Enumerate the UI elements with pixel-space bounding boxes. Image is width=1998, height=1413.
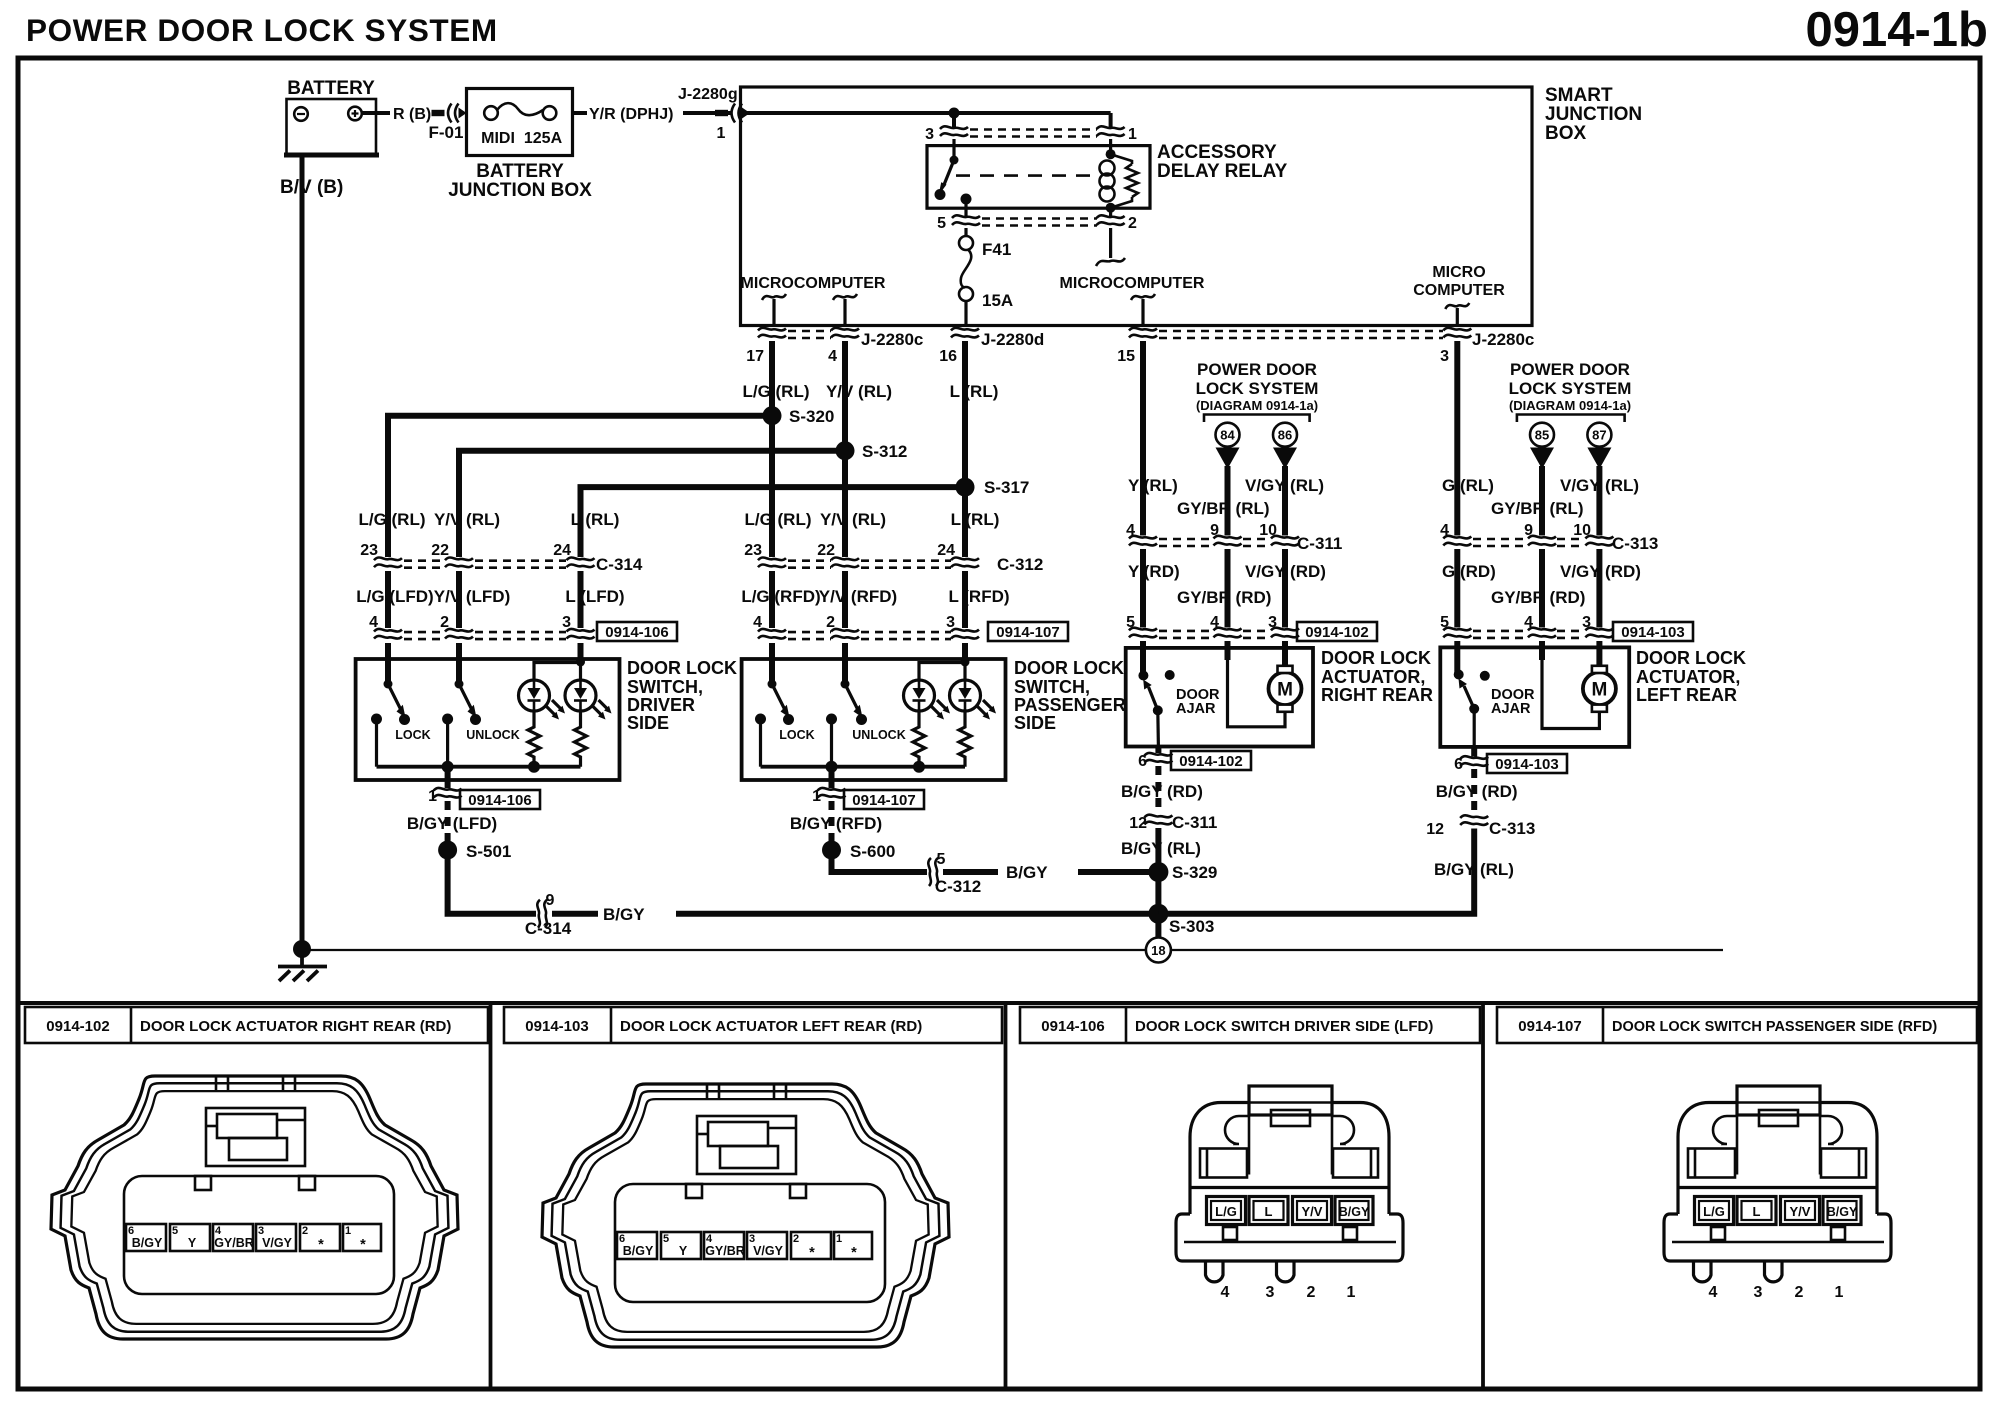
connector J-2280c pins 15 and 3 [1117, 328, 1534, 365]
svg-text:Y/V (RL): Y/V (RL) [826, 382, 892, 401]
svg-text:4: 4 [753, 614, 762, 631]
svg-text:S-312: S-312 [862, 442, 907, 461]
arrow 84 [1216, 448, 1240, 470]
panel divider 3 [1481, 1003, 1485, 1389]
driver LOCK switch [371, 680, 431, 767]
svg-text:B/V (B): B/V (B) [280, 177, 343, 198]
svg-text:9: 9 [1524, 522, 1533, 539]
relay internal dashed link [956, 174, 1093, 177]
svg-text:5: 5 [937, 215, 946, 232]
wire to SJB [683, 111, 732, 115]
svg-text:15: 15 [1117, 348, 1135, 365]
connector drawing 0914-103 [542, 1084, 949, 1347]
svg-text:0914-103: 0914-103 [1621, 624, 1684, 641]
passenger output wire pin 1 [829, 767, 835, 788]
right rear door ajar output [1156, 710, 1160, 746]
wire pin 15 down to right rear group [1140, 341, 1146, 536]
svg-text:5: 5 [1126, 614, 1135, 631]
wire left rear down to bus [1158, 829, 1474, 914]
svg-text:22: 22 [431, 542, 449, 559]
svg-text:M: M [1591, 680, 1607, 701]
smart junction box [741, 85, 1643, 326]
connector C-311 pin 12 [1144, 815, 1172, 825]
svg-text:COMPUTER: COMPUTER [1413, 282, 1505, 299]
svg-text:GY/BR (RL): GY/BR (RL) [1177, 499, 1270, 518]
panel header 0914-102 [25, 1007, 488, 1043]
hook pin 15 [1131, 294, 1155, 300]
door lock actuator right rear box [1126, 648, 1313, 747]
svg-text:GY/BR (RD): GY/BR (RD) [1491, 588, 1585, 607]
panel header 0914-107 [1497, 1007, 1977, 1043]
svg-text:L (RL): L (RL) [950, 382, 999, 401]
svg-text:Y/R (DPHJ): Y/R (DPHJ) [589, 106, 673, 123]
svg-text:2: 2 [440, 614, 449, 631]
svg-text:6: 6 [1138, 753, 1147, 770]
svg-text:(DIAGRAM 0914-1a): (DIAGRAM 0914-1a) [1196, 398, 1318, 413]
wire corner down to relay pin 1 [1109, 113, 1113, 127]
wire L (RL) pin16 to S-317 [962, 341, 968, 487]
svg-text:G (RD): G (RD) [1442, 562, 1496, 581]
svg-text:B/GY (RD): B/GY (RD) [1121, 782, 1203, 801]
dashed wire to S-501 [445, 801, 451, 843]
wire GY/BR (RL) from 84 [1225, 466, 1231, 536]
svg-text:9: 9 [1210, 522, 1219, 539]
svg-text:Y (RD): Y (RD) [1128, 562, 1180, 581]
relay connector row pins 3 and 1 [925, 126, 1137, 143]
svg-text:2: 2 [826, 614, 835, 631]
wire fuse to J-2280g [573, 111, 588, 115]
panel divider 1 [489, 1003, 493, 1389]
wire V/GY (RL) from 87 [1596, 466, 1602, 536]
connector 0914-103 row [1440, 614, 1693, 641]
driver resistor 2 [575, 713, 587, 767]
svg-text:6: 6 [1454, 756, 1463, 773]
svg-text:L/G (RL): L/G (RL) [742, 382, 809, 401]
svg-text:RIGHT REAR: RIGHT REAR [1321, 685, 1433, 705]
svg-text:3: 3 [1268, 614, 1277, 631]
svg-text:DOOR LOCK: DOOR LOCK [1636, 648, 1746, 668]
battery junction box [448, 89, 592, 202]
svg-text:85: 85 [1535, 428, 1549, 443]
node S-303 [1148, 904, 1168, 924]
svg-text:DOOR LOCK ACTUATOR RIGHT REAR: DOOR LOCK ACTUATOR RIGHT REAR (RD) [140, 1018, 451, 1035]
svg-text:87: 87 [1592, 428, 1606, 443]
svg-text:JUNCTION BOX: JUNCTION BOX [448, 180, 592, 201]
wire hook to SJB edge pin 3 [1456, 308, 1459, 326]
svg-text:12: 12 [1129, 815, 1147, 832]
svg-text:0914-106: 0914-106 [1041, 1018, 1104, 1035]
svg-text:BATTERY: BATTERY [287, 78, 375, 99]
svg-text:0914-103: 0914-103 [1495, 756, 1558, 773]
svg-text:1: 1 [812, 788, 821, 805]
svg-text:4: 4 [1126, 522, 1135, 539]
wires into driver switch box [385, 643, 391, 684]
svg-text:DOOR LOCK: DOOR LOCK [627, 658, 737, 678]
svg-text:UNLOCK: UNLOCK [852, 728, 905, 742]
svg-text:DOOR LOCK ACTUATOR LEFT REAR (: DOOR LOCK ACTUATOR LEFT REAR (RD) [620, 1018, 922, 1035]
svg-text:9: 9 [546, 892, 555, 909]
arrow 85 [1530, 448, 1554, 470]
svg-text:GY/BR (RL): GY/BR (RL) [1491, 499, 1584, 518]
svg-text:18: 18 [1151, 943, 1165, 958]
node 84 circled [1216, 423, 1240, 447]
svg-text:4: 4 [369, 614, 378, 631]
driver resistor 1 [528, 713, 540, 767]
svg-text:16: 16 [939, 348, 957, 365]
svg-text:Y/V (RL): Y/V (RL) [434, 510, 500, 529]
svg-text:23: 23 [744, 542, 762, 559]
svg-text:125A: 125A [524, 130, 563, 147]
arrow 86 [1273, 448, 1297, 470]
svg-text:M: M [1277, 680, 1293, 701]
svg-text:S-600: S-600 [850, 842, 895, 861]
left rear door ajar output [1473, 709, 1476, 747]
connector C-314 row [360, 542, 643, 574]
svg-text:(DIAGRAM 0914-1a): (DIAGRAM 0914-1a) [1509, 398, 1631, 413]
svg-text:R (B): R (B) [393, 106, 431, 123]
wire Y/V passenger continues [842, 451, 848, 557]
wire S-317 branch to driver side [581, 487, 966, 557]
svg-text:84: 84 [1220, 428, 1235, 443]
svg-text:0914-102: 0914-102 [46, 1018, 109, 1035]
svg-text:POWER DOOR: POWER DOOR [1510, 360, 1630, 379]
svg-text:L (LFD): L (LFD) [565, 587, 624, 606]
svg-text:0914-103: 0914-103 [525, 1018, 588, 1035]
svg-text:0914-102: 0914-102 [1179, 753, 1242, 770]
svg-text:S-303: S-303 [1169, 917, 1214, 936]
dashed wire to S-600 [829, 801, 835, 843]
connector J-2280d pin 16 [939, 328, 1044, 365]
svg-text:1: 1 [717, 125, 726, 142]
wires into left rear actuator [1454, 641, 1460, 675]
svg-text:0914-102: 0914-102 [1305, 624, 1368, 641]
passenger LED 1 [904, 680, 951, 720]
node battery ground [293, 940, 311, 958]
wire S-329 to S-303 [1155, 872, 1161, 914]
svg-text:SWITCH,: SWITCH, [1014, 677, 1090, 697]
svg-text:3: 3 [562, 614, 571, 631]
panel header 0914-106 [1020, 1007, 1480, 1043]
svg-text:G (RL): G (RL) [1442, 476, 1494, 495]
svg-text:10: 10 [1259, 522, 1277, 539]
svg-text:10: 10 [1573, 522, 1591, 539]
svg-text:DOOR LOCK: DOOR LOCK [1014, 658, 1124, 678]
svg-text:3: 3 [925, 126, 934, 143]
svg-text:1: 1 [1128, 126, 1137, 143]
connector 0914-102 row [1126, 614, 1377, 641]
wire S-501 run to S-303 [448, 850, 536, 914]
wire S-312 branch to driver side [459, 451, 845, 557]
driver LED 1 [519, 680, 566, 720]
svg-text:BOX: BOX [1545, 123, 1587, 144]
svg-text:86: 86 [1278, 428, 1292, 443]
svg-text:ACTUATOR,: ACTUATOR, [1321, 667, 1425, 687]
svg-text:C-314: C-314 [525, 919, 572, 938]
node S-317 [956, 478, 975, 497]
wire L passenger continues [962, 487, 968, 557]
connector J-2280g symbol [715, 104, 750, 123]
svg-text:4: 4 [1440, 522, 1449, 539]
pin 6 connector left rear [1471, 747, 1477, 757]
microcomputer terminal symbol [1096, 258, 1125, 266]
hook pin 17 [762, 294, 786, 300]
wire pin 3 down to left rear group [1454, 341, 1460, 536]
svg-text:C-311: C-311 [1172, 813, 1217, 832]
svg-text:DOOR LOCK SWITCH PASSENGER SID: DOOR LOCK SWITCH PASSENGER SIDE (RFD) [1612, 1019, 1937, 1035]
svg-text:ACTUATOR,: ACTUATOR, [1636, 667, 1740, 687]
svg-text:S-320: S-320 [789, 407, 834, 426]
wire GY/BR (RL) from 85 [1539, 466, 1545, 536]
wire junction down to relay pin 3 [952, 113, 956, 127]
driver common bus [377, 765, 581, 769]
wire B/V (B) battery to ground [300, 155, 305, 948]
svg-text:C-312: C-312 [997, 555, 1043, 574]
battery [284, 78, 379, 155]
svg-text:B/GY (RFD): B/GY (RFD) [790, 814, 882, 833]
door lock actuator left rear box [1440, 647, 1629, 747]
svg-text:3: 3 [946, 614, 955, 631]
svg-text:12: 12 [1426, 821, 1444, 838]
pin 6 connector right rear [1155, 747, 1161, 754]
node S-329 [1148, 862, 1168, 882]
svg-text:B/GY (LFD): B/GY (LFD) [407, 814, 497, 833]
svg-text:MICRO: MICRO [1432, 264, 1485, 281]
connector 0914-106 row [369, 614, 677, 641]
svg-text:B/GY: B/GY [603, 905, 645, 924]
panel header 0914-103 [504, 1007, 1002, 1043]
relay connector row pins 5 and 2 [937, 215, 1137, 232]
svg-text:Y/V (LFD): Y/V (LFD) [434, 587, 511, 606]
svg-text:24: 24 [553, 542, 571, 559]
connector drawing 0914-106 [1176, 1086, 1403, 1301]
svg-text:B/GY: B/GY [1006, 863, 1048, 882]
svg-text:POWER DOOR LOCK SYSTEM: POWER DOOR LOCK SYSTEM [26, 12, 498, 48]
svg-text:L (RFD): L (RFD) [948, 587, 1009, 606]
svg-text:J-2280c: J-2280c [1472, 330, 1534, 349]
svg-text:LEFT REAR: LEFT REAR [1636, 685, 1737, 705]
wire S-303 to ground bus circle [1155, 914, 1161, 940]
passenger resistor 1 [913, 713, 925, 767]
wires passenger group mid segments [769, 571, 775, 628]
panel divider 2 [1004, 1003, 1008, 1389]
svg-text:4: 4 [1524, 614, 1533, 631]
svg-text:BATTERY: BATTERY [476, 161, 564, 182]
svg-text:3: 3 [1582, 614, 1591, 631]
svg-text:L (RL): L (RL) [571, 510, 620, 529]
svg-text:1: 1 [428, 788, 437, 805]
svg-text:0914-106: 0914-106 [605, 624, 668, 641]
wire SJB feed to relay [745, 111, 1111, 115]
svg-text:L/G (RL): L/G (RL) [358, 510, 425, 529]
svg-text:LOCK SYSTEM: LOCK SYSTEM [1509, 379, 1632, 398]
passenger common bus [761, 765, 966, 769]
left rear motor M [1583, 666, 1616, 712]
svg-text:3: 3 [1440, 348, 1449, 365]
svg-text:MICROCOMPUTER: MICROCOMPUTER [1060, 275, 1205, 292]
svg-text:23: 23 [360, 542, 378, 559]
connector C-311 row [1126, 522, 1342, 553]
ground bus line [302, 949, 1723, 951]
svg-text:S-329: S-329 [1172, 863, 1217, 882]
driver illumination branch node [576, 658, 585, 667]
connector F-01 symbol [432, 104, 467, 123]
hook pin 3 [1445, 303, 1469, 309]
svg-text:Y (RL): Y (RL) [1128, 476, 1178, 495]
node 87 circled [1587, 423, 1611, 447]
wires right rear mid segments [1140, 549, 1146, 628]
svg-text:ACCESSORY: ACCESSORY [1157, 142, 1277, 163]
node S-312 [836, 441, 855, 460]
svg-text:DRIVER: DRIVER [627, 695, 695, 715]
left rear door ajar switch [1454, 670, 1535, 718]
svg-text:22: 22 [817, 542, 835, 559]
svg-text:L/G (LFD): L/G (LFD) [356, 587, 433, 606]
wire hook to SJB edge pin 17 [772, 299, 775, 326]
wire S-600 run to S-329 [832, 850, 928, 872]
svg-text:V/GY (RL): V/GY (RL) [1560, 476, 1639, 495]
node S-600 [822, 841, 841, 860]
svg-text:0914-1b: 0914-1b [1805, 3, 1988, 57]
wire relay pin2 to microcomputer [1109, 228, 1112, 258]
wires driver group mid segments [385, 571, 391, 628]
svg-text:S-501: S-501 [466, 842, 511, 861]
right rear motor return wire [1228, 660, 1286, 727]
svg-text:L/G (RFD): L/G (RFD) [741, 587, 820, 606]
svg-text:DELAY RELAY: DELAY RELAY [1157, 161, 1288, 182]
left rear motor return wire [1542, 660, 1599, 729]
fuse MIDI 125A [481, 103, 562, 147]
connector C-312 row [744, 542, 1043, 574]
door lock switch driver side box [356, 659, 620, 780]
right rear motor M [1269, 666, 1302, 712]
bracket left rear [1517, 415, 1625, 423]
svg-text:J-2280g: J-2280g [678, 86, 738, 103]
svg-text:15A: 15A [982, 291, 1013, 310]
svg-text:LOCK SYSTEM: LOCK SYSTEM [1196, 379, 1319, 398]
svg-text:17: 17 [746, 348, 764, 365]
passenger illumination branch node [961, 658, 970, 667]
svg-text:Y/V (RFD): Y/V (RFD) [819, 587, 897, 606]
wires left rear mid segments [1454, 549, 1460, 628]
svg-text:SWITCH,: SWITCH, [627, 677, 703, 697]
connector C-313 row [1440, 522, 1658, 553]
node relay feed junction [949, 108, 960, 119]
passenger resistor 2 [959, 713, 971, 767]
svg-text:LOCK: LOCK [779, 728, 814, 742]
svg-text:UNLOCK: UNLOCK [466, 728, 519, 742]
wires into right rear actuator [1140, 641, 1146, 676]
wire V/GY (RL) from 86 [1282, 466, 1288, 536]
svg-text:2: 2 [1128, 215, 1137, 232]
svg-text:Y/V (RL): Y/V (RL) [820, 510, 886, 529]
svg-text:GY/BR (RD): GY/BR (RD) [1177, 588, 1271, 607]
connector drawing 0914-107 [1664, 1086, 1891, 1301]
driver output wire pin 1 [445, 767, 451, 788]
svg-text:MIDI: MIDI [481, 130, 515, 147]
svg-text:L/G (RL): L/G (RL) [744, 510, 811, 529]
node 18 ground circle [1146, 938, 1171, 963]
wire L/G (RL) pin17 to S-320 [769, 341, 775, 416]
svg-text:DOOR LOCK: DOOR LOCK [1321, 648, 1431, 668]
svg-text:V/GY (RL): V/GY (RL) [1245, 476, 1324, 495]
svg-text:C-312: C-312 [935, 877, 981, 896]
wires into passenger switch box [769, 643, 775, 684]
svg-text:24: 24 [937, 542, 955, 559]
driver UNLOCK switch [442, 680, 520, 767]
svg-text:0914-107: 0914-107 [852, 792, 915, 809]
svg-text:F41: F41 [982, 240, 1011, 259]
dashed wire left rear [1471, 769, 1477, 816]
connector 0914-107 row [753, 614, 1068, 641]
svg-text:5: 5 [937, 851, 946, 868]
svg-text:DOOR LOCK SWITCH DRIVER SIDE (: DOOR LOCK SWITCH DRIVER SIDE (LFD) [1135, 1018, 1433, 1035]
wire battery+ to fuse [362, 111, 390, 115]
relay coil [1100, 139, 1139, 216]
relay switch [935, 139, 972, 216]
node S-501 [438, 841, 457, 860]
wire Y/V (RL) pin4 to S-312 [842, 341, 848, 451]
panel separator line [18, 1001, 1980, 1005]
svg-text:SMART: SMART [1545, 85, 1613, 106]
bracket right rear [1204, 415, 1310, 423]
svg-text:F-01: F-01 [429, 123, 464, 142]
svg-text:LOCK: LOCK [395, 728, 430, 742]
hook pin 4 [833, 294, 857, 300]
svg-text:PASSENGER: PASSENGER [1014, 695, 1126, 715]
svg-text:AJAR: AJAR [1491, 701, 1531, 717]
passenger LED 2 [950, 680, 997, 720]
svg-text:J-2280d: J-2280d [981, 330, 1044, 349]
node 86 circled [1273, 423, 1297, 447]
svg-text:AJAR: AJAR [1176, 701, 1216, 717]
svg-text:MICROCOMPUTER: MICROCOMPUTER [741, 275, 886, 292]
wire hook to SJB edge pin 15 [1141, 299, 1144, 326]
arrow 87 [1587, 448, 1611, 470]
wire hook to SJB edge pin 4 [843, 299, 846, 326]
connector J-2280c pins 17 and 4 [746, 328, 923, 365]
svg-text:0914-107: 0914-107 [1518, 1018, 1581, 1035]
svg-text:C-311: C-311 [1297, 534, 1342, 553]
passenger LOCK switch [755, 680, 815, 767]
node 85 circled [1530, 423, 1554, 447]
svg-text:C-313: C-313 [1612, 534, 1658, 553]
svg-text:L (RL): L (RL) [951, 510, 1000, 529]
accessory delay relay box [927, 146, 1150, 209]
connector drawing 0914-102 [51, 1076, 458, 1339]
wire S-320 branch to driver side [388, 416, 772, 557]
wire to S-329 [1155, 828, 1161, 872]
svg-text:4: 4 [1210, 614, 1219, 631]
connector C-313 pin 12 [1460, 815, 1488, 825]
svg-text:4: 4 [828, 348, 837, 365]
svg-text:5: 5 [1440, 614, 1449, 631]
wire L/G passenger continues [769, 416, 775, 557]
node S-320 [763, 406, 782, 425]
ground symbol [278, 952, 327, 981]
dashed wire right rear [1155, 766, 1161, 814]
door lock switch passenger side box [742, 659, 1006, 780]
svg-text:J-2280c: J-2280c [861, 330, 923, 349]
svg-text:SIDE: SIDE [1014, 713, 1056, 733]
svg-text:C-314: C-314 [596, 555, 643, 574]
fuse F41 15A [959, 228, 1013, 326]
svg-text:JUNCTION: JUNCTION [1545, 104, 1642, 125]
passenger UNLOCK switch [826, 680, 906, 767]
right rear door ajar switch [1138, 670, 1220, 717]
svg-text:0914-106: 0914-106 [468, 792, 531, 809]
driver LED 2 [565, 680, 612, 720]
svg-text:POWER DOOR: POWER DOOR [1197, 360, 1317, 379]
